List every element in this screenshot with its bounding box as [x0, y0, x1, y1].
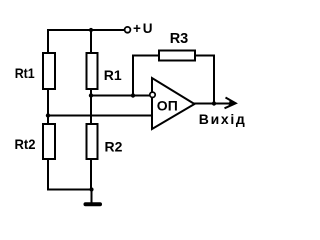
resistor R3 — [159, 51, 195, 61]
wire: feedback right drop to output — [213, 55, 215, 104]
wire: non-inverting input line (Rt node to op-amp) — [48, 115, 152, 117]
node: feedback junction on inverting input — [131, 93, 135, 97]
wire: feedback left drop — [132, 55, 134, 97]
wire: second column top (rail to R1) — [90, 29, 92, 54]
op-amp U1 (ОП) — [152, 78, 195, 129]
svg-text:ОП: ОП — [157, 97, 178, 113]
terminal +U circle — [125, 27, 131, 33]
wire: left column middle (Rt1 to Rt2) — [47, 89, 49, 124]
svg-text:Rt2: Rt2 — [15, 136, 36, 152]
node: output / feedback junction — [212, 101, 216, 105]
node: junction top rail / R1 branch — [89, 28, 93, 32]
wire: second column middle (R1 to R2) — [90, 89, 92, 124]
wire: inverting input line (R1/R2 node to op-amp) — [91, 95, 150, 97]
resistor Rt1 — [43, 53, 55, 89]
wire: R3 right lead — [195, 55, 215, 57]
wire: left column top (rail to Rt1) — [47, 29, 49, 54]
node: ground junction — [89, 187, 93, 191]
svg-text:Rt1: Rt1 — [15, 65, 35, 81]
svg-text:R3: R3 — [170, 31, 189, 47]
svg-text:R1: R1 — [104, 67, 122, 83]
wire: second column bottom (R2 to bottom rail) — [90, 159, 92, 190]
node: bridge right output (R1/R2 junction) — [89, 93, 93, 97]
output arrow head — [225, 98, 236, 109]
inverting input bubble — [150, 92, 155, 97]
wire: top supply rail — [48, 29, 125, 31]
resistor R1 — [87, 53, 98, 89]
svg-text:+U: +U — [133, 21, 153, 36]
resistor Rt2 — [43, 124, 55, 159]
svg-text:Вихід: Вихід — [199, 111, 245, 127]
wire: output line — [194, 103, 230, 105]
wire: ground lead — [91, 190, 93, 204]
wire: left column bottom (Rt2 to bottom rail) — [47, 159, 49, 191]
ground — [86, 202, 101, 206]
svg-text:R2: R2 — [105, 139, 123, 155]
wire: bottom rail — [47, 189, 92, 191]
node: bridge left output — [46, 113, 50, 117]
resistor R2 — [87, 124, 98, 159]
wire: R3 left lead — [132, 55, 159, 57]
